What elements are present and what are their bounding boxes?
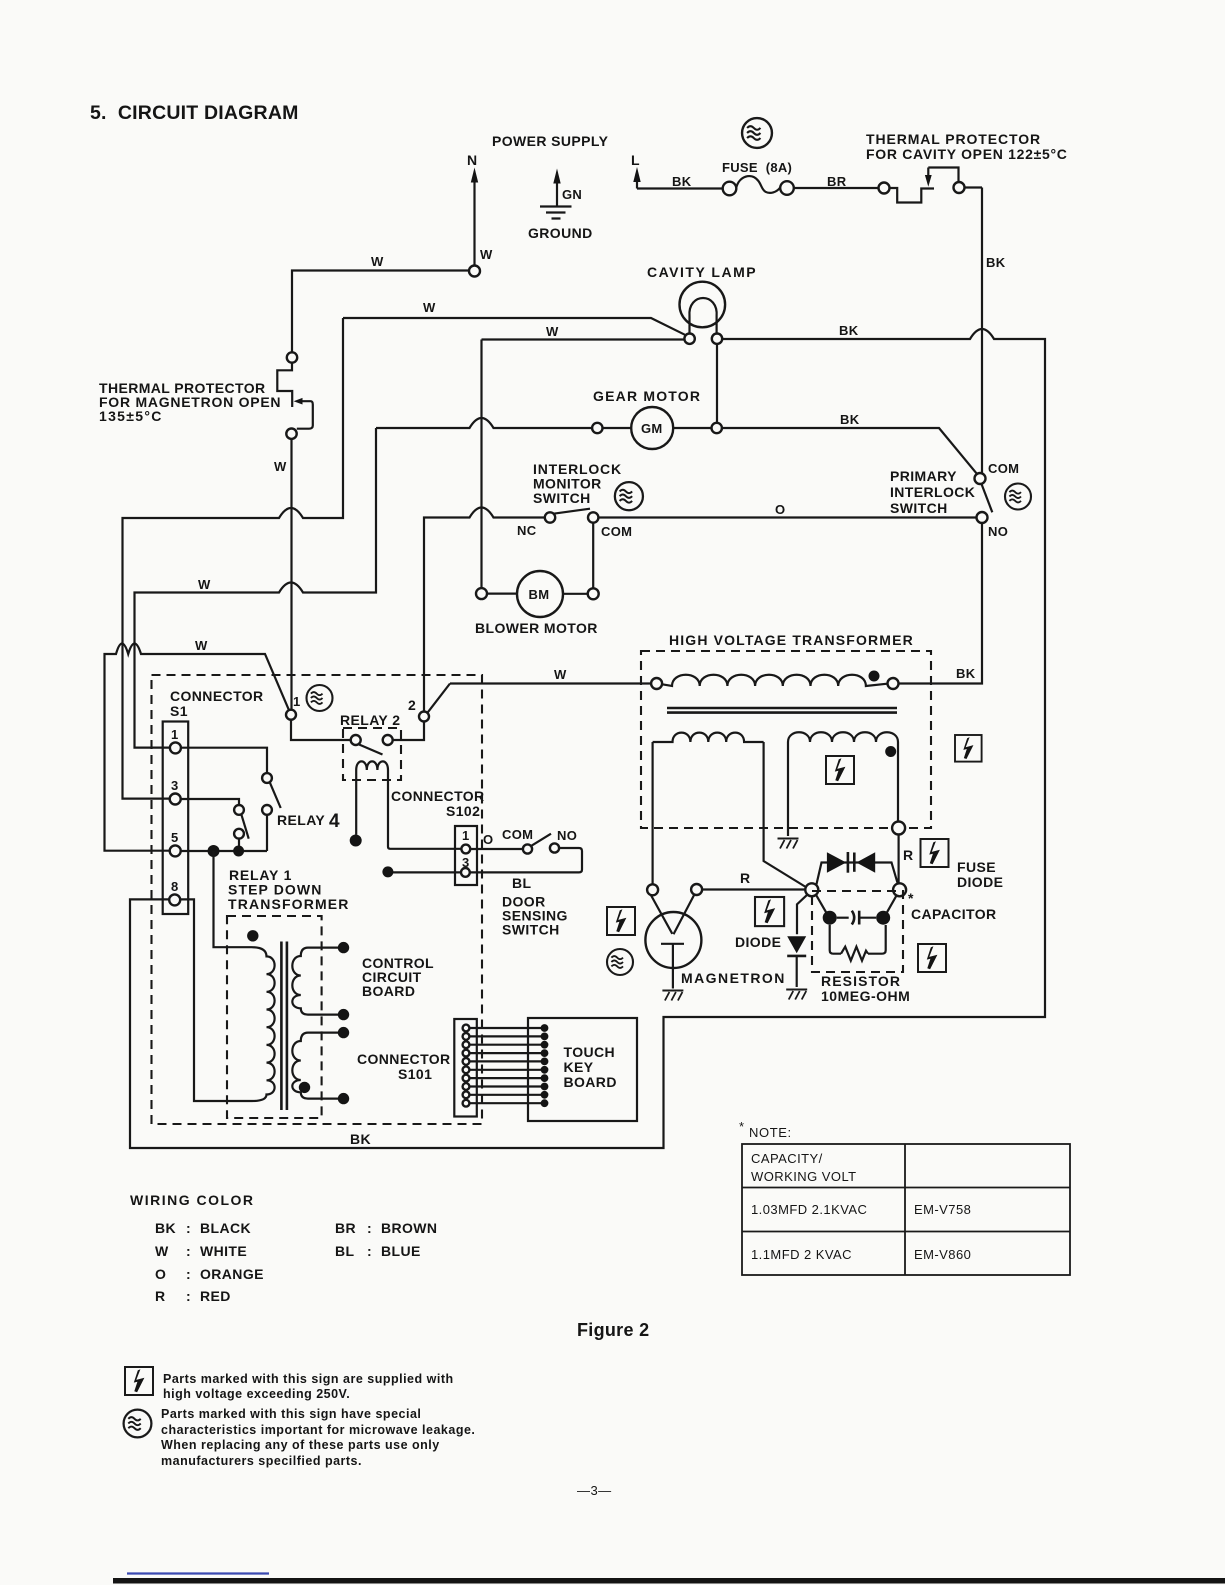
svg-text:O: O xyxy=(155,1266,166,1282)
secondary terminal dot 3 xyxy=(338,1027,349,1038)
svg-text:S101: S101 xyxy=(398,1066,432,1082)
svg-text:COM: COM xyxy=(502,827,533,842)
svg-text:BK: BK xyxy=(986,255,1006,270)
svg-text:—3—: —3— xyxy=(577,1483,612,1498)
flash symbol (diode) xyxy=(755,897,784,926)
wire terminal1 down to relay2 left contact xyxy=(291,720,350,740)
leakage symbol (primary interlock) xyxy=(1005,484,1031,510)
capacitor curved plate xyxy=(852,911,854,925)
svg-text:W: W xyxy=(371,254,384,269)
wire junction dot down to transformer primary top xyxy=(214,851,252,947)
svg-text:L: L xyxy=(631,152,640,168)
connector S102 box xyxy=(455,826,477,885)
wire S102 pin1 to door sensing COM xyxy=(470,848,523,850)
S102 pin 1 xyxy=(461,845,470,854)
wire pin1 to relay4 contact A xyxy=(181,748,267,774)
capacitor right plate lead xyxy=(859,917,876,919)
svg-text:135±5°C: 135±5°C xyxy=(99,408,163,424)
HVT core xyxy=(667,708,897,713)
cavity lamp left terminal xyxy=(684,334,694,344)
note table row line 2 xyxy=(742,1231,1070,1233)
cavity lamp right terminal xyxy=(712,334,722,344)
fuse F1 body xyxy=(736,176,780,193)
leakage symbol (relay2 area) xyxy=(307,685,333,711)
svg-text:O: O xyxy=(483,832,493,847)
thermal protector (cavity) right terminal xyxy=(954,182,965,193)
door sensing blade xyxy=(532,834,552,846)
svg-text:5. CIRCUIT DIAGRAM: 5. CIRCUIT DIAGRAM xyxy=(90,102,299,124)
relay2 coil left lead to dot xyxy=(355,770,357,835)
magnetron right terminal xyxy=(691,884,702,895)
svg-text:GROUND: GROUND xyxy=(528,225,593,241)
wire HV winding left to ground xyxy=(787,742,789,836)
svg-text:BOARD: BOARD xyxy=(564,1074,617,1090)
HV transformer dashed box xyxy=(641,651,931,828)
svg-text:BK: BK xyxy=(840,412,860,427)
relay4 blade C xyxy=(241,814,248,838)
svg-text:BL: BL xyxy=(335,1243,355,1259)
svg-text::: : xyxy=(186,1266,191,1282)
blower motor BM circle xyxy=(517,571,563,617)
svg-text:10MEG-OHM: 10MEG-OHM xyxy=(821,988,910,1004)
svg-text:BK: BK xyxy=(672,174,692,189)
svg-text:R: R xyxy=(740,870,751,886)
wire O: COM to primary interlock NO xyxy=(598,516,976,518)
svg-text:W: W xyxy=(274,459,287,474)
svg-text:W: W xyxy=(423,300,436,315)
transformer secondary top coil xyxy=(292,948,343,1015)
capacitor right terminal dot xyxy=(876,911,890,925)
relay2 coil xyxy=(356,761,388,770)
ground (diode) xyxy=(786,990,807,1000)
wire W: N terminal to magnetron protector riser xyxy=(292,271,469,353)
svg-text:GM: GM xyxy=(641,421,663,436)
leakage symbol (magnetron) xyxy=(607,949,633,975)
flash symbol (fuse diode) xyxy=(921,839,949,867)
svg-text:BR: BR xyxy=(335,1220,356,1236)
svg-text:BM: BM xyxy=(529,587,550,602)
svg-text:DIODE: DIODE xyxy=(957,874,1003,890)
note table row line 1 xyxy=(742,1187,1070,1189)
cavity lamp outer circle xyxy=(680,282,726,328)
transformer polarity dot (top left) xyxy=(247,930,258,941)
fuse F1 right terminal xyxy=(780,181,794,195)
relay 2 dashed box xyxy=(343,728,401,780)
svg-text:GN: GN xyxy=(562,187,582,202)
note table column divider xyxy=(904,1144,906,1275)
wire R: magnetron to R node xyxy=(702,888,805,890)
svg-text:Parts marked with this sign ha: Parts marked with this sign have special xyxy=(161,1407,421,1421)
svg-text:CONNECTOR: CONNECTOR xyxy=(357,1051,451,1067)
svg-text:CONNECTOR: CONNECTOR xyxy=(170,688,264,704)
svg-text:1.1MFD 2 KVAC: 1.1MFD 2 KVAC xyxy=(751,1247,852,1262)
svg-text:FUSE: FUSE xyxy=(957,859,996,875)
wire pin8 to transformer primary bottom xyxy=(180,899,252,1101)
secondary terminal dot 1 xyxy=(338,942,349,953)
door sensing NO contact xyxy=(550,843,559,852)
S101 wire 5 xyxy=(470,1060,542,1062)
svg-text:NOTE:: NOTE: xyxy=(749,1125,792,1140)
secondary terminal dot 4 xyxy=(338,1093,349,1104)
S1 pin 8 xyxy=(169,894,180,905)
svg-text:ORANGE: ORANGE xyxy=(200,1266,264,1282)
svg-text:NC: NC xyxy=(517,523,537,538)
relay2 coil right lead to S102 pin1 xyxy=(388,770,461,849)
svg-text:THERMAL PROTECTOR: THERMAL PROTECTOR xyxy=(866,131,1041,147)
svg-text:WORKING VOLT: WORKING VOLT xyxy=(751,1169,857,1184)
S1 pin 5 xyxy=(170,845,181,856)
leakage symbol (interlock monitor) xyxy=(615,482,643,510)
primary interlock NO contact xyxy=(977,512,988,523)
svg-text:MAGNETRON: MAGNETRON xyxy=(681,970,786,986)
relay2 blade xyxy=(359,744,383,754)
svg-text:S102: S102 xyxy=(446,803,480,819)
wires to BM xyxy=(487,592,588,594)
thermal protector (cavity) contact body xyxy=(890,188,935,203)
interlock monitor NC contact xyxy=(545,512,555,522)
legend leakage symbol xyxy=(124,1410,152,1438)
magnetron circle xyxy=(645,912,701,968)
wire terminal2 down to relay2 right contact xyxy=(393,722,424,740)
transformer secondary bottom coil xyxy=(292,1033,343,1099)
S102 pin 3 xyxy=(461,868,470,877)
svg-text:characteristics important for: characteristics important for microwave … xyxy=(161,1423,475,1437)
svg-text:PRIMARY: PRIMARY xyxy=(890,468,957,484)
wire BL terminal dot xyxy=(382,866,393,877)
wire W: lower branch to lamp xyxy=(482,338,685,340)
connector S1 box xyxy=(163,722,189,915)
svg-text:1: 1 xyxy=(171,727,179,742)
svg-text:INTERLOCK: INTERLOCK xyxy=(890,484,975,500)
diode bar xyxy=(787,955,806,958)
blower motor left terminal xyxy=(476,588,487,599)
relay1 transformer dashed box xyxy=(227,916,322,1118)
svg-text:W: W xyxy=(554,667,567,682)
fuse diode: diode 1 triangle xyxy=(827,852,846,872)
wire W riser: protector to relay2 terminal 1 xyxy=(290,439,292,710)
svg-text:N: N xyxy=(467,152,478,168)
svg-text:HIGH VOLTAGE TRANSFORMER: HIGH VOLTAGE TRANSFORMER xyxy=(669,632,914,648)
svg-text:1.03MFD 2.1KVAC: 1.03MFD 2.1KVAC xyxy=(751,1202,867,1217)
svg-text:RED: RED xyxy=(200,1288,231,1304)
wire pin5 run xyxy=(181,850,267,852)
svg-text:Figure 2: Figure 2 xyxy=(577,1320,649,1340)
capacitor dashed box xyxy=(812,891,903,972)
primary interlock blade xyxy=(982,484,993,512)
flash symbol (inside HVT box) xyxy=(826,756,854,784)
wire BK: NO down to HV transformer primary right xyxy=(899,523,982,684)
S101 wire 10 xyxy=(470,1102,542,1104)
svg-text:Parts marked with this sign ar: Parts marked with this sign are supplied… xyxy=(163,1372,454,1386)
interlock monitor COM contact xyxy=(588,512,598,522)
wire W: upper branch to cavity lamp (diagonal) xyxy=(343,318,685,335)
magnetron heater V xyxy=(651,895,695,935)
capacitor right lead diagonal xyxy=(886,895,896,913)
capacitor left terminal dot xyxy=(823,911,837,925)
ground GN arrow xyxy=(556,181,558,206)
svg-text:NO: NO xyxy=(557,828,577,843)
node FD circle xyxy=(893,883,906,896)
gear motor GM circle xyxy=(631,407,673,449)
svg-text:DIODE: DIODE xyxy=(735,934,781,950)
wire filament left down to magnetron left terminal xyxy=(651,742,653,884)
junction dot (to relay4 D) xyxy=(233,846,244,857)
svg-text:W: W xyxy=(546,324,559,339)
svg-text:FOR CAVITY OPEN 122±5°C: FOR CAVITY OPEN 122±5°C xyxy=(866,146,1068,162)
svg-text::: : xyxy=(186,1243,191,1259)
blue underline mark xyxy=(127,1572,269,1574)
svg-text:POWER SUPPLY: POWER SUPPLY xyxy=(492,133,609,149)
resistor 10meg zigzag xyxy=(841,947,868,961)
HVT primary left terminal xyxy=(651,678,662,689)
svg-text:BROWN: BROWN xyxy=(381,1220,437,1236)
HVT filament winding xyxy=(653,733,764,742)
S101 wire 9 xyxy=(470,1094,542,1096)
touch key board box xyxy=(528,1018,637,1121)
thermal protector (magnetron) top terminal xyxy=(287,352,297,362)
wire HV winding right to case terminal xyxy=(897,742,899,821)
svg-text:COM: COM xyxy=(601,524,632,539)
control circuit board dashed box xyxy=(152,675,483,1124)
svg-text:BR: BR xyxy=(827,174,847,189)
wire diagonal terminal2 to W line xyxy=(428,684,451,713)
svg-text:BL: BL xyxy=(512,875,532,891)
resistor loop left side xyxy=(830,925,841,954)
svg-text:4: 4 xyxy=(329,811,340,832)
wire lamp right terminal down to gear motor line xyxy=(716,344,718,423)
wire W: riser x343 and run to connector pin3 (hop over x291) xyxy=(123,318,344,799)
wire filament right down and diagonal to R node xyxy=(764,742,807,888)
svg-text:high voltage exceeding 250V.: high voltage exceeding 250V. xyxy=(163,1387,350,1401)
relay2 right contact xyxy=(383,735,393,745)
svg-text:WIRING COLOR: WIRING COLOR xyxy=(130,1192,255,1208)
bottom scan border bar xyxy=(113,1578,1225,1584)
S101 wire 4 xyxy=(470,1052,542,1054)
magnetron cathode bar xyxy=(661,943,684,945)
svg-text:TRANSFORMER: TRANSFORMER xyxy=(228,896,350,912)
relay4 blade A xyxy=(270,782,281,808)
svg-text:1: 1 xyxy=(293,694,301,709)
wire protector to BK riser xyxy=(965,186,983,188)
svg-text:GEAR MOTOR: GEAR MOTOR xyxy=(593,388,701,404)
svg-text:WHITE: WHITE xyxy=(200,1243,247,1259)
node R circle xyxy=(805,883,818,896)
svg-text:8: 8 xyxy=(171,879,179,894)
relay2 terminal 1 circle xyxy=(286,710,296,720)
HVT high voltage winding xyxy=(788,732,898,742)
door sensing COM contact xyxy=(523,844,532,853)
svg-text:SWITCH: SWITCH xyxy=(502,922,560,938)
thermal protector (magnetron) actuator arm xyxy=(297,401,313,429)
fuse diode bridge top run xyxy=(816,863,897,886)
svg-text:BK: BK xyxy=(956,666,976,681)
fuse F1 (8A) left terminal xyxy=(723,182,737,196)
flash symbol (right of HVT box) xyxy=(955,735,982,762)
relay2 terminal 2 circle xyxy=(419,712,429,722)
svg-text:*: * xyxy=(908,890,914,906)
wire gear motor line (hop over x481.5) with diagonal to primary interlock COM xyxy=(376,418,977,474)
HVT primary coil xyxy=(662,675,887,686)
wire W riser x376 from gear motor line to pin1 run (hop over x291) xyxy=(135,428,377,748)
node N arrow xyxy=(473,180,475,266)
S1 pin 3 xyxy=(170,794,181,805)
node N terminal circle xyxy=(469,266,480,277)
HVT case terminal circle xyxy=(892,822,905,835)
svg-text:BLUE: BLUE xyxy=(381,1243,421,1259)
wire fuse to thermal protector, BR xyxy=(794,187,879,189)
svg-text:NO: NO xyxy=(988,524,1008,539)
svg-text:RESISTOR: RESISTOR xyxy=(821,973,901,989)
svg-text:*: * xyxy=(739,1119,745,1134)
svg-text:KEY: KEY xyxy=(564,1059,594,1075)
wire riser x481.5 down to blower motor xyxy=(480,340,482,589)
legend flash symbol xyxy=(125,1367,153,1395)
thermal protector (cavity) left terminal xyxy=(879,183,890,194)
svg-text:O: O xyxy=(775,502,785,517)
svg-text:TOUCH: TOUCH xyxy=(564,1044,616,1060)
cavity lamp filament loop xyxy=(689,298,716,334)
thermal protector (magnetron) bottom terminal xyxy=(286,429,296,439)
junction dot (to relay1 transformer) xyxy=(208,845,220,857)
svg-text::: : xyxy=(186,1220,191,1236)
thermal protector (cavity) actuator arm xyxy=(928,168,958,182)
svg-text:W: W xyxy=(198,577,211,592)
wire BL from dot to S102 pin3 xyxy=(393,871,462,873)
capacitor flat plate xyxy=(858,911,861,925)
svg-text:BK: BK xyxy=(839,323,859,338)
fuse diode: diode 2 triangle xyxy=(856,852,875,872)
relay4 contact C xyxy=(234,805,244,815)
svg-text:SWITCH: SWITCH xyxy=(533,490,591,506)
svg-text:RELAY: RELAY xyxy=(277,812,325,828)
svg-text:CONNECTOR: CONNECTOR xyxy=(391,788,485,804)
svg-text:BK: BK xyxy=(155,1220,176,1236)
wire BK riser from protector down to primary interlock COM xyxy=(981,188,983,474)
relay2 coil left terminal dot xyxy=(350,835,362,847)
svg-text:When replacing any of these pa: When replacing any of these parts use on… xyxy=(161,1438,440,1452)
wire NO loop back to S102 pin3 xyxy=(470,848,582,872)
svg-text:1: 1 xyxy=(462,828,470,843)
interlock monitor blade xyxy=(554,509,591,514)
S101 wire 2 xyxy=(470,1035,542,1037)
ground symbol xyxy=(540,207,572,219)
svg-text:RELAY 2: RELAY 2 xyxy=(340,712,400,728)
gear motor left terminal xyxy=(592,423,602,433)
svg-text:W: W xyxy=(480,247,493,262)
secondary tap dot xyxy=(299,1082,310,1093)
svg-text:2: 2 xyxy=(408,697,416,713)
S101 wire 8 xyxy=(470,1085,542,1087)
wire COM down to blower motor right terminal xyxy=(592,523,594,588)
S101 wire 3 xyxy=(470,1044,542,1046)
resistor loop right side xyxy=(868,925,886,954)
note table outer box xyxy=(742,1144,1070,1275)
svg-text:BOARD: BOARD xyxy=(362,983,415,999)
relay2 left contact xyxy=(351,735,361,745)
wire W to HV transformer xyxy=(450,682,651,684)
transformer core xyxy=(281,942,287,1111)
flash symbol (magnetron) xyxy=(607,907,635,935)
blower motor right terminal xyxy=(588,588,599,599)
wire pin3 to relay4 contact C xyxy=(181,799,239,805)
diode lead to ground xyxy=(796,956,798,987)
capacitor left lead diagonal xyxy=(816,895,827,914)
svg-text:EM-V860: EM-V860 xyxy=(914,1247,971,1262)
svg-text:BLACK: BLACK xyxy=(200,1220,251,1236)
wire BK: lamp to right boundary loop (hop over x982) around to connector pin8 xyxy=(130,329,1045,1148)
diode triangle xyxy=(787,936,806,953)
svg-text:5: 5 xyxy=(171,830,179,845)
svg-text:W: W xyxy=(195,638,208,653)
flash symbol (capacitor) xyxy=(918,944,946,972)
svg-text:3: 3 xyxy=(171,778,179,793)
HVT primary polarity dot xyxy=(869,671,880,682)
S101 wire 7 xyxy=(470,1077,542,1079)
svg-text:BLOWER MOTOR: BLOWER MOTOR xyxy=(475,620,598,636)
svg-text:CAPACITOR: CAPACITOR xyxy=(911,906,997,922)
svg-text:R: R xyxy=(903,847,914,863)
node junction circle on gear motor line xyxy=(712,423,722,433)
svg-text:CAVITY LAMP: CAVITY LAMP xyxy=(647,264,757,280)
wire case terminal down to FD node xyxy=(897,835,899,884)
svg-text::: : xyxy=(367,1243,372,1259)
HVT primary right terminal xyxy=(888,678,899,689)
svg-text::: : xyxy=(186,1288,191,1304)
svg-text:EM-V758: EM-V758 xyxy=(914,1202,971,1217)
diode lead from R node xyxy=(797,894,808,934)
svg-text:R: R xyxy=(155,1288,166,1304)
svg-text:SWITCH: SWITCH xyxy=(890,500,948,516)
S1 pin 1 xyxy=(170,742,181,753)
svg-text:CAPACITY/: CAPACITY/ xyxy=(751,1151,823,1166)
wire contact D down to junction dot xyxy=(238,839,240,846)
svg-text:FUSE (8A): FUSE (8A) xyxy=(722,160,792,175)
relay4 contact A xyxy=(262,773,272,783)
wire W: run y654 to terminal1 with double hop xyxy=(105,644,290,851)
fuse diode: bar 2 xyxy=(853,853,856,872)
relay4 contact B xyxy=(262,805,272,815)
S101 wire 6 xyxy=(470,1069,542,1071)
fuse diode: bar 1 xyxy=(847,852,850,873)
leakage symbol (top) xyxy=(742,118,772,148)
S101 wire 1 xyxy=(470,1027,542,1029)
secondary terminal dot 2 xyxy=(338,1009,349,1020)
magnetron left terminal xyxy=(647,884,658,895)
svg-text:S1: S1 xyxy=(170,703,188,719)
svg-text:BK: BK xyxy=(350,1131,371,1147)
magnetron stem to ground xyxy=(672,944,674,989)
ground (HV winding) xyxy=(778,839,799,849)
node L arrow xyxy=(636,180,638,189)
relay4 contact D xyxy=(234,829,244,839)
wire O line: terminal2 riser, run to NC (hop over x481.5) xyxy=(424,508,545,712)
transformer primary coil xyxy=(252,947,275,1101)
svg-text:COM: COM xyxy=(988,461,1019,476)
svg-text:manufacturers specilfied parts: manufacturers specilfied parts. xyxy=(161,1454,362,1468)
wire L to fuse, BK xyxy=(637,187,723,189)
HVT HV winding polarity dot xyxy=(885,746,896,757)
primary interlock COM contact xyxy=(975,473,986,484)
connector S101 box xyxy=(454,1019,477,1117)
svg-text::: : xyxy=(367,1220,372,1236)
ground (magnetron) xyxy=(662,991,683,1001)
svg-text:W: W xyxy=(155,1243,169,1259)
wire contact B down to pin5 run xyxy=(266,815,268,851)
thermal protector (magnetron) contact body xyxy=(277,363,292,407)
capacitor left plate lead xyxy=(837,917,849,919)
